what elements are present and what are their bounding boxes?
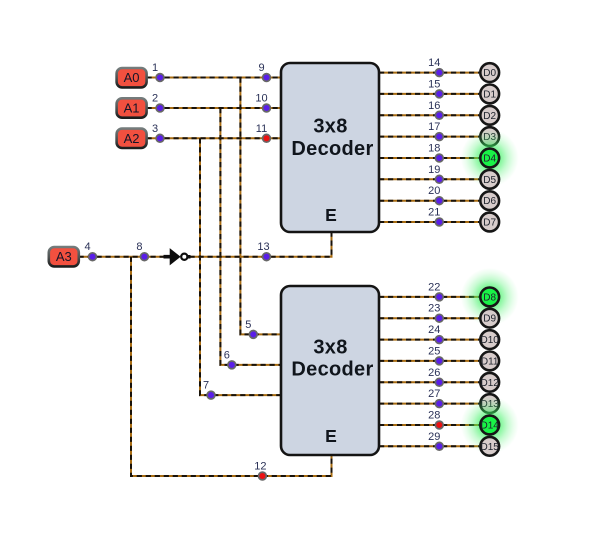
LED D0 <box>480 63 499 82</box>
svg-text:E: E <box>325 205 337 225</box>
svg-text:11: 11 <box>256 123 267 135</box>
svg-text:A0: A0 <box>124 70 140 85</box>
svg-text:D12: D12 <box>481 378 500 389</box>
wires U2 outputs to LEDs D8-D15 <box>379 297 479 446</box>
inverter gate U3 <box>164 248 191 265</box>
svg-text:22: 22 <box>428 281 440 293</box>
svg-text:15: 15 <box>428 78 440 90</box>
svg-text:27: 27 <box>428 388 440 400</box>
LED D3 <box>480 127 499 146</box>
svg-text:D5: D5 <box>483 175 496 186</box>
svg-text:D15: D15 <box>481 442 500 453</box>
svg-text:D11: D11 <box>481 356 499 367</box>
LED D13 <box>480 394 499 413</box>
node 8 <box>136 241 148 260</box>
node 18 <box>428 143 443 162</box>
wires U1 outputs to LEDs D0-D7 <box>379 73 479 222</box>
svg-text:20: 20 <box>428 185 440 197</box>
node 6 <box>224 349 236 368</box>
node 11 <box>256 123 271 142</box>
svg-text:D6: D6 <box>483 196 496 207</box>
svg-text:D14: D14 <box>481 421 500 432</box>
node 27 <box>428 388 443 407</box>
svg-text:D10: D10 <box>481 335 500 346</box>
node 19 <box>428 164 443 183</box>
svg-text:D7: D7 <box>483 218 496 229</box>
svg-text:D0: D0 <box>483 68 496 79</box>
svg-text:8: 8 <box>136 241 142 253</box>
node 1 <box>152 62 164 81</box>
push button A1 <box>117 98 147 117</box>
node 7 <box>203 380 215 399</box>
decoder U2 3x8 <box>281 286 379 455</box>
node 14 <box>428 57 443 76</box>
node 2 <box>152 93 164 112</box>
svg-text:14: 14 <box>428 57 440 69</box>
push button A2 <box>117 129 147 148</box>
svg-text:17: 17 <box>428 121 440 133</box>
svg-text:4: 4 <box>84 241 90 253</box>
node 12 <box>254 461 266 480</box>
svg-text:5: 5 <box>245 319 251 331</box>
node 26 <box>428 367 443 386</box>
node 4 <box>84 241 96 260</box>
decoder U1 3x8 <box>281 63 379 232</box>
LED D5 <box>480 170 499 189</box>
wire net A1 <box>147 108 282 365</box>
node 10 <box>255 93 270 112</box>
svg-text:E: E <box>325 426 337 446</box>
node 28 <box>428 410 443 429</box>
svg-text:D1: D1 <box>483 89 496 100</box>
svg-text:12: 12 <box>254 461 266 473</box>
svg-text:3x8: 3x8 <box>313 116 347 138</box>
svg-text:D4: D4 <box>483 154 496 165</box>
svg-text:25: 25 <box>428 345 440 357</box>
svg-text:1: 1 <box>152 62 158 74</box>
node 16 <box>428 100 443 119</box>
LED D2 <box>480 106 499 125</box>
LED D4 (lit) <box>461 129 519 187</box>
svg-text:A2: A2 <box>124 131 140 146</box>
svg-text:29: 29 <box>428 431 440 443</box>
svg-text:D2: D2 <box>483 111 496 122</box>
wire net A3 (to inverter input and branch down to U2 enable) <box>79 257 332 476</box>
svg-text:16: 16 <box>428 100 440 112</box>
svg-text:3: 3 <box>152 123 158 135</box>
push button A0 <box>117 68 147 87</box>
wire net A0 (node1 to decoder U1 pin and branch to U2) <box>147 78 282 335</box>
node 24 <box>428 324 443 343</box>
svg-text:24: 24 <box>428 324 440 336</box>
svg-text:Decoder: Decoder <box>291 359 373 381</box>
svg-text:9: 9 <box>258 62 264 74</box>
node 21 <box>428 207 443 226</box>
svg-text:6: 6 <box>224 349 230 361</box>
push button A3 <box>49 247 79 266</box>
LED D10 <box>480 330 499 349</box>
svg-text:2: 2 <box>152 93 158 105</box>
node 5 <box>245 319 257 338</box>
svg-text:D8: D8 <box>483 292 496 303</box>
LED D8 (lit) <box>461 268 519 326</box>
node 25 <box>428 345 443 364</box>
LED D12 <box>480 373 499 392</box>
svg-text:10: 10 <box>255 93 267 105</box>
node 9 <box>258 62 270 81</box>
node 22 <box>428 281 443 300</box>
node 20 <box>428 185 443 204</box>
LED D14 (lit) <box>461 396 519 454</box>
svg-text:18: 18 <box>428 143 440 155</box>
svg-text:3x8: 3x8 <box>313 336 347 358</box>
wire net A2 <box>147 138 282 395</box>
svg-text:26: 26 <box>428 367 440 379</box>
svg-text:D9: D9 <box>483 314 496 325</box>
svg-text:28: 28 <box>428 410 440 422</box>
LED D15 <box>480 437 499 456</box>
node 17 <box>428 121 443 140</box>
svg-text:7: 7 <box>203 380 209 392</box>
svg-text:A1: A1 <box>124 101 140 116</box>
LED D1 <box>480 85 499 104</box>
node 3 <box>152 123 164 142</box>
svg-text:23: 23 <box>428 303 440 315</box>
LED D9 <box>480 309 499 328</box>
node 13 <box>257 241 270 260</box>
svg-text:13: 13 <box>257 241 269 253</box>
LED D6 <box>480 191 499 210</box>
wire net inverter output to U1 enable <box>190 232 332 257</box>
svg-text:21: 21 <box>428 207 440 219</box>
svg-text:A3: A3 <box>56 249 72 264</box>
node 29 <box>428 431 443 450</box>
LED D11 <box>480 352 499 371</box>
node 23 <box>428 303 443 322</box>
svg-text:Decoder: Decoder <box>291 138 373 160</box>
LED D7 <box>480 213 499 232</box>
svg-text:19: 19 <box>428 164 440 176</box>
node 15 <box>428 78 443 97</box>
